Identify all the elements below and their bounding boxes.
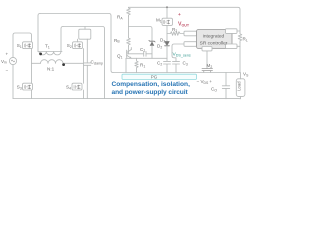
svg-text:Vin: Vin — [1, 59, 7, 65]
transistor S3 — [23, 83, 33, 90]
wire sense line from SR pin — [172, 44, 184, 61]
svg-text:− VDS +: − VDS + — [197, 79, 213, 85]
capacitor Co — [222, 73, 229, 99]
wire clamp cap bottom lead — [86, 65, 88, 98]
svg-text:C2: C2 — [157, 61, 162, 67]
svg-text:N:1: N:1 — [47, 67, 55, 72]
resistor RB — [127, 37, 131, 47]
capacitor C1 series — [144, 51, 146, 56]
transistor S2 — [73, 42, 83, 49]
svg-text:+: + — [6, 52, 9, 57]
svg-text:RA: RA — [117, 15, 123, 21]
wire load bottom — [240, 96, 242, 98]
capacitor C2 — [164, 58, 171, 72]
svg-text:M2: M2 — [207, 63, 213, 69]
bottom rail — [13, 98, 241, 100]
svg-text:−: − — [6, 68, 9, 73]
svg-text:S1: S1 — [17, 43, 22, 49]
svg-text:Cclamp: Cclamp — [91, 60, 103, 66]
wire cap to D2 branch — [146, 53, 152, 55]
svg-text:C3: C3 — [183, 61, 188, 67]
mid rail secondary return — [113, 72, 240, 74]
svg-text:D3: D3 — [160, 38, 165, 44]
highlight box PG — [122, 74, 197, 79]
resistor RA — [127, 7, 131, 16]
transistor S1 — [23, 42, 33, 49]
load box — [236, 79, 245, 97]
pin box right top — [226, 29, 238, 34]
resistor R1 vertical — [135, 58, 138, 72]
transistor M1 — [162, 7, 173, 41]
wire node to D2 branch — [129, 27, 153, 42]
transformer T1 secondary winding — [41, 60, 64, 64]
IC U1 integrated SR controller — [197, 30, 233, 49]
wire RB bottom to Q1 base node — [127, 47, 129, 54]
wire primary right end up to clamp wire B — [61, 27, 63, 52]
wire base node to series cap — [129, 53, 144, 55]
svg-text:S4: S4 — [66, 85, 71, 91]
resistor RL — [238, 33, 242, 43]
svg-text:PG: PG — [151, 75, 158, 80]
junction dot M1 top — [166, 6, 168, 8]
wire secondary right lead — [63, 62, 84, 64]
wire A top loop from primary to right column — [40, 14, 113, 73]
wire pin to rail top — [237, 30, 240, 32]
svg-text:RB: RB — [114, 38, 120, 44]
wire primary left end up to top wire A — [38, 14, 40, 52]
pin box bottom gate — [202, 47, 212, 51]
svg-text:SR controller: SR controller — [200, 41, 228, 47]
transistor S4 — [72, 83, 82, 90]
wire D1 top stub — [84, 27, 86, 30]
svg-text:Load: Load — [237, 81, 242, 91]
transistor Q1 — [127, 48, 132, 59]
pin box left top — [184, 31, 197, 36]
wire right leg S2 source to S4 and bottom rail — [83, 49, 85, 99]
polarity dot primary — [39, 53, 42, 56]
svg-text:T1: T1 — [45, 44, 50, 50]
wire load top — [240, 73, 242, 79]
svg-text:+: + — [178, 13, 181, 18]
wire clamp cap top lead — [86, 39, 88, 63]
wire S2 drain stub — [77, 39, 79, 42]
svg-text:CO: CO — [211, 87, 217, 93]
wire Vin top up to S1 loop — [13, 33, 32, 57]
wire gate pin down to M2 — [206, 51, 208, 69]
resistor R2 horizontal — [167, 32, 184, 36]
wire RL to bottom mid rail — [239, 43, 241, 73]
svg-text:S2: S2 — [67, 43, 72, 49]
transistor M2 horizontal SR fet — [202, 69, 213, 73]
capacitor Cclamp — [84, 63, 91, 65]
svg-text:VOUT: VOUT — [178, 22, 190, 28]
wire RA bottom to junction — [128, 16, 130, 37]
wire left branch to bottom rail — [125, 58, 127, 72]
svg-text:VS: VS — [243, 72, 249, 78]
polarity dot secondary — [62, 63, 65, 66]
svg-text:Q1: Q1 — [117, 54, 123, 60]
svg-text:D2: D2 — [157, 44, 162, 50]
svg-text:R1: R1 — [140, 63, 145, 69]
zener D2 — [149, 40, 155, 58]
svg-text:and power-supply circuit: and power-supply circuit — [112, 89, 189, 96]
diode block D1 — [79, 29, 91, 39]
capacitor C3 — [173, 61, 180, 72]
wire left leg between windings junction and S3 — [31, 63, 33, 98]
svg-text:C1: C1 — [140, 47, 145, 53]
svg-text:RL: RL — [243, 37, 248, 43]
svg-text:M1: M1 — [156, 18, 162, 24]
wire secondary left lead — [32, 62, 41, 64]
diode D3 — [165, 41, 170, 58]
pin box left bottom — [184, 42, 197, 47]
source Vin circle — [9, 57, 16, 64]
transformer T1 primary winding — [38, 52, 62, 55]
wire B clamp wire — [63, 27, 105, 99]
svg-text:VDS_sens: VDS_sens — [173, 52, 191, 58]
svg-text:integrated: integrated — [203, 34, 225, 40]
pin box right bottom — [226, 44, 238, 49]
wire pin to rail bottom — [237, 45, 240, 47]
wire W1 emitter rail — [126, 57, 167, 59]
wire S1 source down to primary-left leg — [31, 49, 33, 64]
svg-text:R2: R2 — [172, 27, 177, 33]
svg-text:S3: S3 — [17, 85, 22, 91]
svg-text:Compensation, isolation,: Compensation, isolation, — [112, 81, 191, 88]
source sine — [11, 60, 15, 62]
wire Vin bottom down to bottom rail — [12, 65, 14, 99]
top rail VOUT — [129, 7, 241, 33]
